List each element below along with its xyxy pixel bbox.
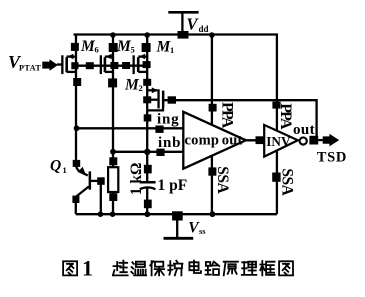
svg-text:PTAT: PTAT (19, 64, 41, 73)
svg-text:comp: comp (185, 133, 220, 149)
svg-text:dd: dd (199, 24, 209, 34)
svg-text:1 kΩ: 1 kΩ (128, 163, 145, 196)
svg-text:PPA: PPA (218, 102, 235, 129)
svg-text:Q: Q (50, 158, 61, 175)
svg-text:ing: ing (157, 112, 179, 128)
svg-text:inb: inb (158, 135, 181, 151)
svg-text:out: out (293, 122, 315, 138)
svg-text:1: 1 (82, 255, 93, 280)
svg-text:SSA: SSA (279, 168, 296, 196)
svg-text:1: 1 (63, 165, 67, 175)
svg-text:1: 1 (170, 45, 174, 55)
svg-text:SSA: SSA (214, 166, 231, 194)
svg-text:1 pF: 1 pF (158, 177, 188, 194)
svg-text:2: 2 (139, 83, 143, 93)
svg-text:PPA: PPA (277, 103, 294, 130)
svg-text:out: out (222, 133, 243, 149)
svg-text:INV: INV (266, 134, 291, 149)
svg-text:6: 6 (95, 45, 99, 55)
svg-text:ss: ss (199, 226, 206, 236)
svg-text:5: 5 (131, 45, 135, 55)
svg-text:TSD: TSD (317, 149, 347, 165)
